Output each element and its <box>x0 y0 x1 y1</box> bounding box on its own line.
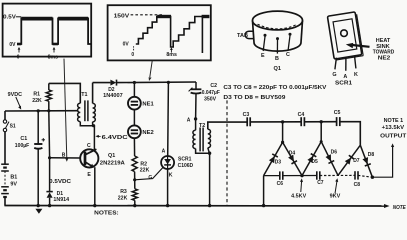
wire apex2 stub <box>320 122 322 142</box>
diode D8 leg <box>360 145 372 177</box>
node ground rail x=94.8 <box>93 204 96 207</box>
svg-text:NOTES:: NOTES: <box>94 211 119 217</box>
svg-text:8ms: 8ms <box>166 52 177 58</box>
Q1 can TAB <box>245 31 253 38</box>
svg-text:0: 0 <box>131 52 134 58</box>
svg-text:4.5KV: 4.5KV <box>291 193 307 199</box>
wire NE2 to R2 <box>133 138 135 156</box>
svg-text:T1: T1 <box>81 92 87 98</box>
capacitor C6 <box>277 171 284 187</box>
svg-text:1N914: 1N914 <box>53 197 69 203</box>
wire left drop to ground <box>263 176 265 206</box>
svg-text:SCR1: SCR1 <box>335 81 352 87</box>
wire R1 bottom <box>48 101 50 111</box>
svg-text:NE2: NE2 <box>142 130 153 136</box>
wire midline seg1 <box>264 175 280 177</box>
svg-text:B: B <box>275 56 279 62</box>
wire apex1 stub <box>282 122 284 142</box>
svg-text:D4: D4 <box>289 150 296 156</box>
svg-text:8ms: 8ms <box>48 54 59 60</box>
dashed separator line <box>226 100 228 205</box>
capacitor C4 <box>298 112 305 126</box>
battery B1 <box>1 164 17 197</box>
svg-text:K: K <box>354 72 358 78</box>
wire T2 bottom to ground rail <box>209 153 211 206</box>
wire midline seg4 <box>358 175 372 177</box>
SCR1 package drawing with heat-sink note <box>327 12 394 87</box>
capacitor C5 <box>334 110 341 126</box>
node ground rail x=38.2 <box>37 204 40 207</box>
node ground rail x=49.6 <box>48 204 51 207</box>
svg-text:NOTE: NOTE <box>393 205 406 211</box>
node ground rail x=134.8 <box>133 204 136 207</box>
diode D2 <box>103 80 123 99</box>
wire SCR1 anode from rail <box>167 82 170 156</box>
svg-text:350V: 350V <box>204 97 217 103</box>
callout line from box1 to Q1 base <box>64 59 67 159</box>
diode D7 leg <box>338 145 360 175</box>
svg-text:K: K <box>169 173 173 179</box>
svg-text:2N2219A: 2N2219A <box>100 160 125 166</box>
callout line from box2 to rectified rail <box>150 61 152 77</box>
wire T1 primary bottom jog <box>80 122 94 126</box>
wire C1 lower <box>37 148 39 205</box>
diode D4 leg <box>283 142 302 175</box>
svg-text:G: G <box>148 175 152 181</box>
node ground rail x=167.6 <box>166 204 169 207</box>
capacitor C3 <box>243 112 251 126</box>
svg-text:C3: C3 <box>243 112 250 118</box>
svg-text:A: A <box>187 117 191 123</box>
svg-text:R3: R3 <box>120 189 127 195</box>
neon lamp NE2 <box>128 125 154 138</box>
neon lamp NE1 <box>128 97 154 110</box>
capacitor C7 <box>317 171 324 186</box>
svg-text:C: C <box>87 143 91 149</box>
svg-text:0: 0 <box>17 54 20 60</box>
svg-text:C2: C2 <box>210 83 217 89</box>
svg-text:0.5VDC: 0.5VDC <box>49 179 72 185</box>
svg-text:6.4VDC: 6.4VDC <box>102 135 128 141</box>
svg-text:22K: 22K <box>32 98 42 104</box>
svg-text:B: B <box>62 153 66 159</box>
wire SCR1 cathode <box>167 169 169 206</box>
svg-text:100µF: 100µF <box>15 143 29 149</box>
wire Q1 emitter <box>94 167 96 205</box>
ground symbol <box>35 209 42 214</box>
wire battery bottom <box>4 197 6 206</box>
node NE1 top <box>133 81 136 84</box>
svg-text:C7: C7 <box>317 180 324 186</box>
SCR1 <box>161 156 193 179</box>
svg-text:D3 TO D8 = BUY509: D3 TO D8 = BUY509 <box>223 95 285 101</box>
svg-text:A: A <box>343 74 347 80</box>
svg-text:1N4007: 1N4007 <box>103 93 123 99</box>
wire C5 to corner <box>340 122 361 146</box>
node valley 4.5KV <box>300 174 303 177</box>
scope trace box 1 (0.5V square wave) <box>3 4 92 61</box>
svg-text:R1: R1 <box>33 92 40 98</box>
wire output <box>372 147 392 177</box>
wire 9V rail <box>5 110 78 112</box>
Q1 transistor can package (3D view) <box>237 11 303 72</box>
ground rail arrow to note <box>384 204 390 208</box>
diode D6 leg <box>321 142 338 176</box>
wire gate line <box>135 167 163 179</box>
wire rail corner to C2 <box>195 82 197 89</box>
wire T2 primary bottom <box>196 149 210 154</box>
svg-text:Q1: Q1 <box>274 66 281 72</box>
wire T2 secondary top to multiplier <box>208 122 247 129</box>
wire top line R1 to T1 primary <box>49 83 81 103</box>
wire Q1 collector <box>93 126 95 151</box>
wire NE1 to NE2 <box>133 110 135 126</box>
svg-text:9V: 9V <box>10 181 17 187</box>
wire rectified rail <box>93 82 111 84</box>
svg-text:NE2: NE2 <box>378 55 391 61</box>
wire C1 upper <box>37 111 39 143</box>
capacitor C2 <box>189 83 220 102</box>
resistor R3 <box>134 180 136 189</box>
wire rail to base junction <box>48 111 51 158</box>
node A <box>194 117 197 120</box>
node ground rail x=263.6 <box>262 204 265 207</box>
wire base junction to D1 <box>49 158 51 192</box>
svg-text:Q1: Q1 <box>108 153 115 159</box>
svg-text:S1: S1 <box>10 124 16 130</box>
wire C4 to C5 <box>304 121 336 123</box>
wire C2 to node A <box>195 94 197 119</box>
svg-text:C1: C1 <box>20 136 27 142</box>
svg-text:NOTE 1: NOTE 1 <box>384 118 404 124</box>
wire battery top <box>4 111 6 120</box>
svg-text:22K: 22K <box>140 168 150 174</box>
diode D3 leg <box>264 142 283 175</box>
node base junction <box>48 156 51 159</box>
node gate junction <box>133 178 136 181</box>
svg-text:+13.5kV: +13.5kV <box>382 125 405 131</box>
resistor R2 <box>132 156 137 172</box>
svg-text:D8: D8 <box>368 152 375 158</box>
svg-text:22K: 22K <box>118 195 128 201</box>
svg-text:D3: D3 <box>275 160 282 166</box>
svg-text:SCR1: SCR1 <box>178 156 191 162</box>
wire S1 to battery <box>4 132 6 164</box>
svg-text:150V: 150V <box>114 13 130 19</box>
wire midline seg2 <box>283 175 317 177</box>
node apex1 top <box>281 120 284 123</box>
node output junction <box>371 176 374 179</box>
wire C3 to C4 <box>250 121 301 123</box>
svg-text:G: G <box>332 72 336 78</box>
wire ground rail <box>4 205 385 208</box>
wire T1 secondary bottom <box>92 122 94 126</box>
svg-text:D5: D5 <box>311 159 318 165</box>
svg-text:C8: C8 <box>354 182 361 188</box>
wire T1 secondary top <box>92 83 94 104</box>
svg-text:OUTPUT: OUTPUT <box>380 134 407 140</box>
switch S1 <box>3 120 16 132</box>
node apex1 <box>281 141 284 144</box>
svg-text:D6: D6 <box>331 150 338 156</box>
node T1 bottom <box>92 124 95 127</box>
wire T2 secondary bottom <box>208 148 210 154</box>
scope trace box 2 (150V staircase) <box>108 5 211 60</box>
node apex2 top <box>320 120 323 123</box>
label 9KV arrow <box>335 181 337 194</box>
wire rail to NE1 <box>133 83 135 97</box>
diode D5 leg <box>302 142 321 176</box>
label 4.5KV arrow <box>300 181 303 192</box>
wire R3 to ground rail <box>134 200 136 205</box>
svg-text:NE1: NE1 <box>142 102 153 108</box>
svg-text:C6: C6 <box>277 181 284 187</box>
node C1 top <box>37 109 40 112</box>
capacitor C8 <box>354 171 361 188</box>
node ground rail x=209.6 <box>208 204 211 207</box>
wire midline seg3 <box>320 174 355 176</box>
node SCR anode top <box>167 81 170 84</box>
wire D1 to ground rail <box>49 198 51 206</box>
svg-text:B1: B1 <box>10 174 17 180</box>
node R1/rail <box>47 109 50 112</box>
svg-text:TAB: TAB <box>237 33 248 39</box>
svg-text:C5: C5 <box>334 110 341 116</box>
capacitor C1 <box>15 136 45 149</box>
diode D1 <box>46 191 69 203</box>
svg-text:E: E <box>87 172 91 178</box>
svg-text:E: E <box>261 53 265 59</box>
node T2 bottom <box>208 152 211 155</box>
svg-text:C: C <box>286 52 290 58</box>
svg-text:D7: D7 <box>353 158 360 164</box>
svg-text:9VDC: 9VDC <box>8 92 22 98</box>
svg-text:0V: 0V <box>9 42 16 48</box>
svg-text:9KV: 9KV <box>330 194 341 200</box>
wire R2 to gate node <box>134 172 136 180</box>
resistor R1 <box>48 83 50 90</box>
svg-text:C3 TO C8 = 220pF TO 0.001µF/5K: C3 TO C8 = 220pF TO 0.001µF/5KV <box>223 85 327 91</box>
svg-text:R2: R2 <box>140 161 147 167</box>
svg-text:C106D: C106D <box>178 163 194 169</box>
transistor Q1 <box>80 143 125 178</box>
svg-text:0V: 0V <box>123 41 130 47</box>
wire base line <box>50 157 81 159</box>
svg-text:C4: C4 <box>298 112 305 118</box>
wire rail D2 to C2 corner <box>117 81 197 84</box>
svg-text:A: A <box>162 149 166 155</box>
svg-text:0.047µF: 0.047µF <box>202 90 220 96</box>
svg-text:0.5V: 0.5V <box>3 15 16 21</box>
